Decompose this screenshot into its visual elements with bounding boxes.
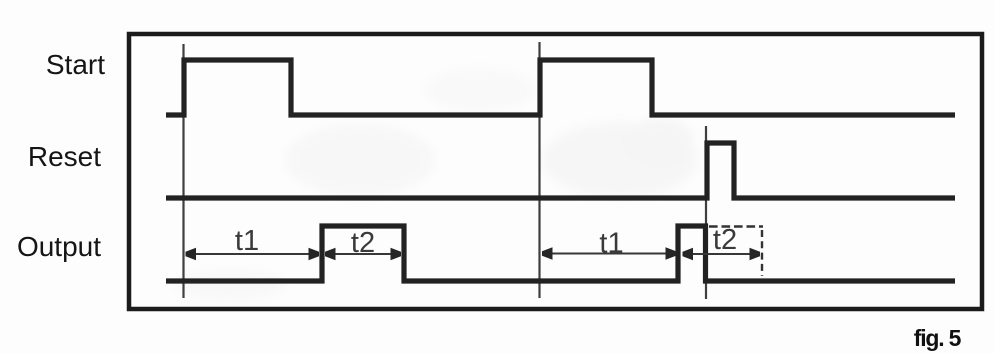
svg-text:t1: t1 — [599, 228, 623, 260]
svg-text:t2: t2 — [351, 227, 375, 259]
svg-text:t2: t2 — [713, 224, 737, 256]
svg-text:t1: t1 — [235, 225, 259, 257]
svg-text:Start: Start — [46, 49, 105, 80]
svg-text:fig. 5: fig. 5 — [914, 325, 962, 351]
svg-text:Reset: Reset — [28, 141, 101, 172]
svg-text:Output: Output — [17, 231, 101, 262]
